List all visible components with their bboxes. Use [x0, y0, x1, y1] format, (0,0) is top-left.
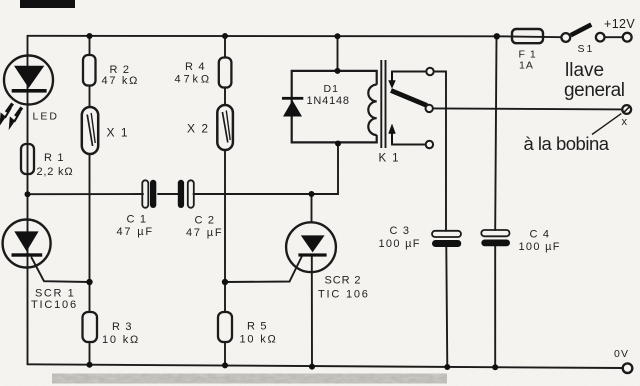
- neon lamp X2: [187, 105, 233, 150]
- LED D: [0, 56, 59, 128]
- LED circle: [4, 56, 53, 105]
- svg-text:K 1: K 1: [379, 152, 400, 164]
- wire left branch vertical: [27, 36, 29, 365]
- top supply rail: [28, 36, 562, 37]
- node rail fuse: [494, 33, 500, 39]
- LED emission arrow 1: [0, 104, 12, 124]
- node ground C4: [492, 364, 498, 370]
- coil loop rectangle and coil K1: [292, 71, 377, 142]
- terminal 0V: [623, 363, 633, 373]
- scan artifact bar top-left: [20, 0, 75, 8]
- fuse F1: [512, 29, 543, 72]
- wire relay bottom contact with arm: [392, 143, 426, 145]
- node SCR1 gate: [86, 279, 92, 285]
- node coil top: [335, 68, 341, 74]
- svg-text:C 3: C 3: [390, 225, 411, 237]
- relay contact bottom: [426, 141, 433, 148]
- node R1 bottom: [25, 191, 31, 197]
- switch S1: [561, 25, 594, 56]
- svg-text:10 kΩ: 10 kΩ: [240, 334, 278, 346]
- neon lamp X1: [82, 107, 129, 154]
- scan artifact gray band bottom: [52, 374, 447, 384]
- wire C3 bottom to rail: [446, 247, 447, 367]
- capacitor C1: [117, 180, 157, 238]
- LED triangle: [14, 66, 44, 88]
- +12V terminal pair: [596, 33, 605, 42]
- resistor R1: [21, 144, 34, 174]
- svg-text:R 4: R 4: [185, 61, 206, 73]
- svg-text:general: general: [564, 80, 625, 101]
- resistor R4: [219, 58, 232, 88]
- svg-text:llave: llave: [565, 60, 604, 81]
- relay contact middle: [426, 105, 433, 112]
- svg-text:D1: D1: [324, 83, 339, 95]
- resistor R2: [83, 55, 96, 86]
- leader line a la bobina: [592, 114, 621, 135]
- svg-text:47 kΩ: 47 kΩ: [102, 75, 140, 87]
- svg-text:1A: 1A: [519, 60, 534, 72]
- node coil bottom: [335, 141, 341, 147]
- svg-text:R 1: R 1: [44, 152, 65, 164]
- resistor R5: [218, 312, 232, 342]
- wire relay middle contact to terminal X: [433, 108, 623, 109]
- svg-text:LED: LED: [33, 111, 59, 123]
- svg-text:100 µF: 100 µF: [379, 238, 421, 250]
- wire +12V terminal link: [605, 36, 624, 38]
- relay contact top: [426, 68, 433, 75]
- svg-text:SCR 1: SCR 1: [35, 288, 75, 300]
- capacitor C4: [481, 228, 560, 253]
- node ground SCR2: [309, 364, 315, 370]
- diode D1 triangle: [283, 100, 302, 116]
- svg-text:X 2: X 2: [187, 121, 210, 135]
- wire relay top contact left stub: [392, 72, 426, 74]
- svg-text:R 5: R 5: [247, 320, 268, 332]
- capacitor C3: [379, 225, 462, 250]
- wire C4 bottom to rail: [494, 246, 496, 367]
- wire SCR2 anode: [311, 194, 313, 222]
- node SCR2 anode: [309, 191, 315, 197]
- LED emission arrow 2: [10, 108, 22, 128]
- svg-text:X 1: X 1: [107, 126, 130, 140]
- svg-text:C 4: C 4: [530, 228, 551, 240]
- svg-text:TIC 106: TIC 106: [318, 288, 370, 300]
- svg-text:1N4148: 1N4148: [307, 95, 350, 107]
- relay K1 core: [381, 60, 385, 148]
- svg-text:2,2 kΩ: 2,2 kΩ: [37, 166, 74, 178]
- svg-text:0V: 0V: [614, 348, 629, 360]
- node SCR2 gate: [222, 279, 228, 285]
- node ground R5: [222, 362, 228, 368]
- node rail R2: [87, 33, 93, 39]
- svg-text:R 3: R 3: [112, 321, 133, 333]
- capacitor C2: [178, 180, 224, 239]
- svg-text:47kΩ: 47kΩ: [175, 73, 213, 85]
- wire branch3 vertical R4/X2/R5: [224, 36, 226, 58]
- wire SCR2 gate: [225, 256, 302, 282]
- bottom ground rail: [28, 364, 623, 368]
- svg-text:47 µF: 47 µF: [117, 226, 154, 238]
- thyristor SCR1: [3, 220, 78, 312]
- svg-text:à la bobina: à la bobina: [524, 133, 610, 154]
- svg-text:x: x: [622, 116, 628, 128]
- svg-text:10 kΩ: 10 kΩ: [102, 334, 140, 346]
- svg-text:C 1: C 1: [127, 213, 148, 225]
- diode D1 cathode bar: [282, 97, 303, 100]
- terminal X to coil: [622, 105, 632, 128]
- diode D1 with relay coil loop: [282, 71, 377, 142]
- wire relay top contact to C3 line: [434, 72, 447, 231]
- wire coil bottom to node row: [312, 144, 339, 195]
- wire SCR2 cathode to rail: [311, 256, 313, 367]
- node rail coil: [335, 33, 341, 39]
- svg-text:47 µF: 47 µF: [186, 227, 223, 239]
- relay arrow up: [389, 124, 396, 143]
- wire node row y194: [28, 193, 144, 195]
- svg-text:100 µF: 100 µF: [519, 241, 561, 253]
- wire fuse junction down to C4: [495, 36, 496, 230]
- relay K1 armature: [391, 91, 427, 106]
- node ground R3: [87, 362, 93, 368]
- LED cathode bar: [12, 89, 47, 93]
- wire relay coil top to rail: [337, 36, 339, 71]
- node ground C3: [444, 364, 450, 370]
- svg-text:TIC106: TIC106: [31, 299, 78, 311]
- wire SCR1 gate: [32, 258, 90, 283]
- svg-text:SCR 2: SCR 2: [325, 274, 362, 286]
- svg-text:C 2: C 2: [195, 215, 216, 227]
- resistor R3: [83, 312, 98, 342]
- svg-text:+12V: +12V: [604, 17, 635, 31]
- svg-text:S1: S1: [578, 43, 595, 55]
- wire branch2 vertical R2/X1/R3: [89, 36, 91, 55]
- relay arrow down: [389, 73, 396, 89]
- thyristor SCR2: [286, 222, 370, 300]
- node rail R4: [222, 33, 228, 39]
